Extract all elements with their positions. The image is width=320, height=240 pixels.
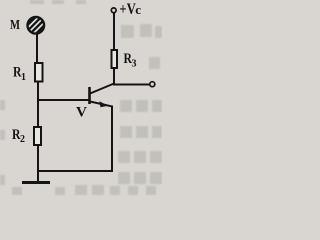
svg-text:2: 2 bbox=[20, 134, 25, 145]
svg-text:+V: +V bbox=[119, 1, 136, 18]
svg-text:3: 3 bbox=[132, 59, 137, 70]
svg-text:c: c bbox=[135, 2, 141, 17]
svg-text:1: 1 bbox=[21, 72, 26, 83]
svg-text:V: V bbox=[76, 105, 87, 121]
svg-text:M: M bbox=[10, 18, 20, 33]
